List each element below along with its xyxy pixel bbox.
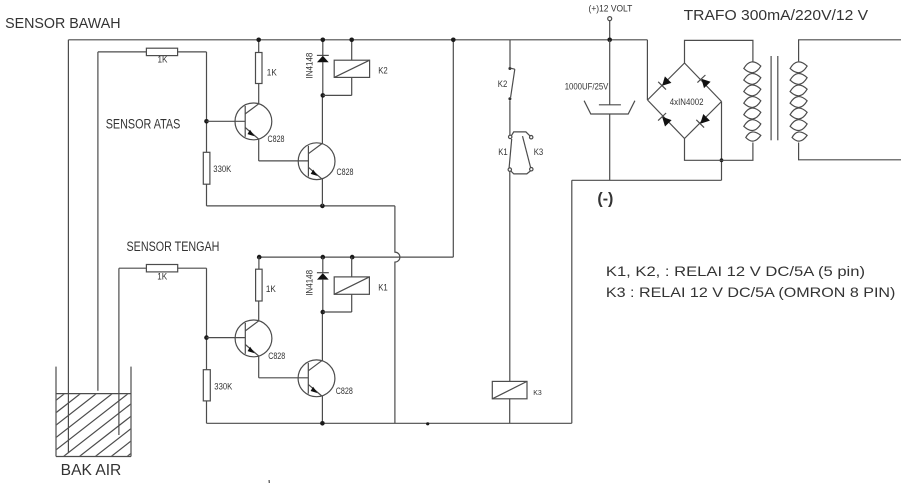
switch K1/K3 assembly — [508, 132, 533, 382]
svg-text:C828: C828 — [268, 351, 285, 361]
diode bridge bottom-left — [658, 113, 672, 127]
svg-text:330K: 330K — [214, 381, 232, 391]
wire stage2 top rail — [259, 256, 453, 258]
resistor R4 1K (sensor tengah series) — [119, 265, 207, 272]
svg-text:(+)12 VOLT: (+)12 VOLT — [589, 4, 633, 14]
relay coil K2 — [323, 40, 370, 96]
resistor R2 330K (stage1) — [203, 152, 210, 206]
wire +12V feed to stage2 rail — [452, 40, 454, 257]
diode D1 IN4148 — [317, 40, 329, 96]
transformer T1 primary coil — [789, 61, 808, 142]
svg-text:1K: 1K — [267, 68, 277, 78]
node stage2 rail diode — [321, 255, 326, 260]
wire Q3 emitter to Q4 base — [259, 377, 309, 379]
diode bridge bottom-right — [696, 114, 710, 128]
resistor R3 1K (Q1 collector) — [256, 40, 263, 84]
node R3 top — [256, 38, 261, 43]
wire bridge bottom to transformer — [685, 139, 753, 161]
svg-text:(-): (-) — [597, 191, 613, 208]
transformer T1 core — [771, 56, 778, 140]
wire stage1 emitter rail — [207, 205, 395, 207]
svg-text:C828: C828 — [337, 167, 354, 177]
svg-text:1000UF/25V: 1000UF/25V — [565, 82, 609, 92]
svg-text:K2: K2 — [498, 79, 508, 89]
node stage2 rail left — [257, 255, 262, 260]
wire base column stage2 — [206, 268, 208, 370]
wire (-) vertical — [571, 180, 573, 423]
svg-text:1K: 1K — [157, 272, 167, 282]
node D2 bottom junction — [321, 310, 326, 315]
node feed top — [451, 38, 456, 43]
wire sensor bawah vertical — [67, 40, 69, 453]
wire (-) rail — [572, 179, 722, 181]
wire vertical with hop to bottom rail — [395, 206, 400, 423]
svg-text:SENSOR ATAS: SENSOR ATAS — [106, 117, 181, 132]
svg-text:TRAFO 300mA/220V/12 V: TRAFO 300mA/220V/12 V — [684, 8, 869, 24]
capacitor C1 1000UF/25V — [584, 40, 635, 181]
svg-text:K1, K2, : RELAI 12 V DC/5A (5: K1, K2, : RELAI 12 V DC/5A (5 pin) — [606, 263, 865, 279]
svg-text:IN4148: IN4148 — [304, 270, 314, 296]
wire +12V top rail — [68, 39, 647, 41]
node Q4 emitter on bottom rail — [320, 421, 325, 426]
wire base to Q1 — [207, 120, 246, 122]
node stray dot on bottom rail — [426, 422, 429, 425]
svg-text:K1: K1 — [378, 283, 388, 293]
svg-text:K3 : RELAI 12 V DC/5A (OMRON: K3 : RELAI 12 V DC/5A (OMRON 8 PIN) — [606, 284, 896, 300]
wire base column stage1 — [206, 52, 208, 152]
tank water hatching — [36, 327, 150, 490]
relay coil K1 — [323, 257, 370, 312]
wire bottom rail — [207, 422, 572, 424]
node D1 bottom junction — [321, 93, 326, 98]
svg-text:K3: K3 — [533, 388, 542, 397]
diode D2 IN4148 — [317, 257, 329, 312]
resistor R6 1K (Q3 collector) — [256, 257, 263, 301]
diode bridge top-right — [697, 75, 710, 88]
wire primary bottom 220V — [799, 143, 901, 160]
terminal (+)12V — [608, 17, 612, 40]
svg-text:IN4148: IN4148 — [304, 53, 314, 79]
wire base to Q3 — [207, 337, 246, 339]
stray tick bottom center — [268, 480, 270, 483]
svg-text:SENSOR TENGAH: SENSOR TENGAH — [127, 239, 220, 254]
svg-text:K3: K3 — [534, 147, 544, 157]
node cap top on rail — [607, 38, 612, 43]
wire sensor tengah vertical — [118, 268, 120, 435]
node K2 coil top — [349, 38, 354, 43]
svg-text:K2: K2 — [378, 66, 388, 76]
switch K2 — [508, 40, 514, 135]
relay coil K3 — [492, 381, 527, 423]
node base Q1 — [204, 119, 209, 124]
node Q2 emitter on rail — [320, 204, 325, 209]
transformer T1 secondary coil — [743, 61, 762, 142]
resistor R1 1K (sensor atas series) — [98, 48, 207, 55]
node D1 top — [321, 38, 326, 43]
node stage2 rail relay — [350, 255, 355, 260]
svg-text:C828: C828 — [336, 386, 353, 396]
svg-text:SENSOR BAWAH: SENSOR BAWAH — [5, 15, 120, 32]
transistor Q3 C828 — [235, 301, 272, 378]
svg-text:330K: 330K — [213, 164, 231, 174]
diode bridge top-left — [658, 76, 671, 89]
resistor R5 330K (stage2) — [203, 370, 210, 424]
node bridge right and secondary bottom — [720, 158, 724, 162]
wire bridge right corner to (-) — [721, 102, 723, 181]
wire primary top 220V — [799, 40, 901, 62]
svg-text:BAK AIR: BAK AIR — [61, 462, 122, 479]
transistor Q1 C828 — [235, 84, 272, 161]
wire bridge top to transformer — [685, 40, 753, 63]
svg-text:C828: C828 — [268, 134, 285, 144]
node base Q3 — [204, 335, 209, 340]
transistor Q4 C828 — [298, 312, 335, 423]
bridge rectifier 4xIN4002 — [648, 63, 722, 139]
svg-text:K1: K1 — [498, 147, 508, 157]
svg-text:1K: 1K — [266, 284, 276, 294]
svg-text:1K: 1K — [158, 55, 168, 65]
wire Q1 emitter to Q2 base — [259, 160, 309, 162]
wire +12V down to bridge — [646, 40, 648, 100]
transistor Q2 C828 — [298, 95, 335, 205]
svg-text:4xIN4002: 4xIN4002 — [670, 97, 704, 107]
tank BAK AIR — [56, 367, 131, 457]
wire sensor atas vertical — [97, 52, 99, 391]
